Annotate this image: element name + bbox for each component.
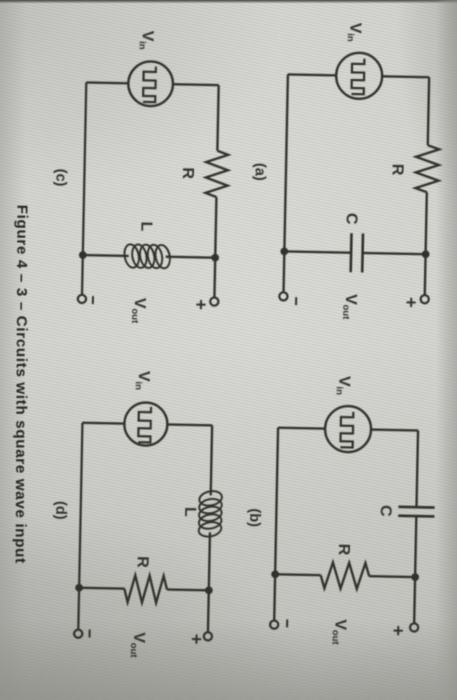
label minus (a) [295,297,297,305]
resistor R series [205,150,228,197]
junction node top [205,586,213,594]
wire: top rail left [211,425,212,495]
capacitor C shunt plates [361,233,364,272]
output terminal minus (open circle) [270,620,278,628]
label minus (c) [92,296,94,304]
output terminal plus (open circle) [204,632,212,640]
wire: shunt branch top [363,253,426,254]
caption: Figure 4-3 Circuits with square wave input [12,205,31,564]
wire: source bottom lead [82,422,124,425]
resistor R shunt [124,575,167,603]
svg-text:R: R [179,167,196,179]
wire: top rail left [417,431,419,508]
wire: source bottom lead [288,73,336,76]
wire: bottom rail [283,74,287,292]
wire: top rail left [217,85,218,151]
wire: shunt branch bottom [79,587,124,590]
svg-text:R: R [134,556,151,568]
wire: source top lead [173,83,219,86]
junction node bottom [79,251,87,259]
label minus (b) [286,619,288,627]
dark strip at very top (photo edge) [0,0,457,4]
wire: shunt branch bottom [284,251,351,252]
wire: top rail right [414,516,416,623]
source Vin circle (a) [336,52,383,99]
output terminal plus (open circle) [410,623,418,631]
output terminal plus (open circle) [421,295,429,303]
bottom-left soft dark patch [0,510,310,700]
wire: shunt branch top [167,588,209,591]
circuit (a): Vin, series R, shunt C, Vout [249,21,442,322]
label plus (c) [196,300,205,309]
svg-text:C: C [377,505,394,517]
square-wave glyph [138,407,151,443]
label plus (d) [192,634,201,643]
inductor L series coil [197,489,223,539]
inductor L shunt coil [122,243,172,270]
wire: source top lead [167,423,212,426]
output terminal minus (open circle) [279,292,287,300]
circuit (b): Vin, series C, shunt R, Vout [244,374,437,647]
junction node top [211,254,219,262]
square-wave glyph [340,412,353,448]
wire: shunt branch bottom [275,573,320,576]
circuit (d): Vin, series L, shunt R, Vout [49,369,226,660]
source Vin circle (d) [124,402,168,446]
wire: bottom rail [274,428,278,621]
wire: top rail right [214,197,216,298]
svg-text:L: L [137,221,154,231]
label plus (b) [394,626,403,635]
svg-text:Figure 4 – 3 – Circuits with s: Figure 4 – 3 – Circuits with square wave… [12,205,31,564]
label plus (a) [406,298,415,307]
junction node bottom [271,570,279,578]
svg-text:C: C [343,213,360,225]
wire: top rail right [208,532,210,632]
junction node top [422,250,430,258]
wire: source top lead [382,75,429,78]
source Vin circle (c) [128,61,173,106]
wire: top rail right [425,192,427,295]
wire: shunt branch top [369,575,415,578]
top-left soft dark patch [0,0,280,190]
output terminal minus (open circle) [74,630,82,638]
wire: source bottom lead [278,427,325,430]
output terminal plus (open circle) [210,297,218,305]
resistor R series [415,145,439,192]
capacitor C series plates [398,505,434,508]
circuit (c): Vin, series R, shunt L, Vout [49,29,230,326]
resistor R shunt [320,562,369,589]
svg-text:R: R [389,164,406,176]
left edge soft shadow [0,0,26,700]
source Vin circle (b) [325,406,372,453]
square-wave glyph [143,66,156,102]
svg-text:(a): (a) [252,163,268,181]
wire: source top lead [371,428,418,431]
svg-text:L: L [181,507,198,517]
output terminal minus (open circle) [78,295,86,303]
junction node bottom [280,247,288,255]
square-wave glyph [351,58,364,94]
wire: bottom rail [78,423,82,630]
page right edge: soft darker band [436,0,457,700]
wire: shunt branch bottom [83,254,129,257]
wire: bottom rail [82,82,86,294]
wire: top rail left [428,77,429,145]
svg-text:R: R [335,544,352,556]
bottom edge soft shadow [0,620,457,700]
label minus (d) [89,629,91,637]
wire: shunt branch top [166,256,215,259]
lower half soft shading [0,340,457,700]
svg-text:(b): (b) [246,508,262,527]
svg-text:(d): (d) [52,501,68,520]
junction node bottom [75,584,83,592]
junction node top [411,573,419,581]
svg-text:(c): (c) [52,169,68,187]
top-right corner patch [397,0,457,200]
wire: source bottom lead [86,81,128,84]
